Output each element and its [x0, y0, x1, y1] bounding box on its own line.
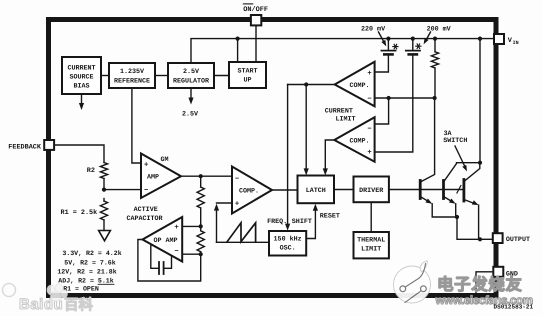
svg-text:GM: GM	[160, 156, 168, 164]
svg-text:5V, R2 = 7.6k: 5V, R2 = 7.6k	[64, 260, 115, 267]
svg-text:RESET: RESET	[320, 213, 340, 221]
svg-text:百科: 百科	[64, 297, 93, 314]
svg-text:COMP.: COMP.	[239, 188, 259, 196]
svg-text:FREQ.: FREQ.	[267, 218, 287, 226]
svg-text:220 mV: 220 mV	[361, 26, 385, 34]
svg-text:−: −	[367, 96, 371, 104]
svg-text:FEEDBACK: FEEDBACK	[8, 143, 42, 151]
svg-text:CURRENT: CURRENT	[67, 65, 95, 73]
svg-text:−: −	[235, 176, 239, 184]
svg-text:ADJ, R2 = 5.1k: ADJ, R2 = 5.1k	[58, 277, 113, 284]
svg-text:150 kHz: 150 kHz	[274, 236, 302, 244]
svg-text:3.3V, R2 = 4.2k: 3.3V, R2 = 4.2k	[62, 250, 121, 257]
svg-text:12V, R2 = 21.8k: 12V, R2 = 21.8k	[57, 269, 116, 276]
svg-text:R1 = OPEN: R1 = OPEN	[63, 286, 99, 293]
svg-text:REFERENCE: REFERENCE	[114, 78, 150, 86]
svg-text:CURRENT: CURRENT	[325, 107, 353, 115]
svg-text:LATCH: LATCH	[306, 187, 326, 195]
svg-text:200 mV: 200 mV	[427, 26, 451, 34]
svg-text:UP: UP	[243, 77, 251, 85]
svg-text:REGULATOR: REGULATOR	[173, 78, 209, 86]
svg-text:+: +	[367, 70, 371, 78]
svg-text:LIMIT: LIMIT	[361, 246, 381, 254]
svg-text:SWITCH: SWITCH	[443, 137, 467, 145]
svg-text:1.235V: 1.235V	[120, 68, 144, 76]
svg-text:+: +	[367, 149, 371, 157]
svg-text:−: −	[144, 187, 148, 195]
svg-text:SHIFT: SHIFT	[292, 218, 312, 226]
svg-text:+: +	[144, 161, 148, 169]
svg-text:COMP.: COMP.	[349, 137, 369, 145]
svg-text:R2: R2	[87, 167, 95, 175]
svg-text:OUTPUT: OUTPUT	[506, 236, 530, 244]
svg-text:−: −	[174, 248, 178, 256]
svg-text:START: START	[237, 68, 257, 76]
svg-text:COMP.: COMP.	[349, 82, 369, 90]
svg-text:R1 = 2.5k: R1 = 2.5k	[61, 209, 98, 217]
svg-text:−: −	[367, 126, 371, 134]
svg-text:SOURCE: SOURCE	[69, 74, 93, 82]
svg-text:OP AMP: OP AMP	[153, 237, 177, 245]
svg-text:LIMIT: LIMIT	[335, 116, 355, 124]
svg-text:2.5V: 2.5V	[182, 111, 198, 119]
svg-text:AMP: AMP	[147, 174, 159, 182]
svg-text:+: +	[235, 200, 239, 208]
svg-text:OSC.: OSC.	[280, 245, 296, 253]
svg-text:ACTIVE: ACTIVE	[134, 206, 158, 214]
svg-text:BIAS: BIAS	[73, 83, 89, 91]
svg-text:CAPACITOR: CAPACITOR	[126, 215, 162, 223]
svg-text:IN: IN	[513, 40, 519, 46]
svg-text:THERMAL: THERMAL	[357, 237, 385, 245]
svg-text:ON/OFF: ON/OFF	[243, 6, 268, 14]
svg-text:电子发烧友: 电子发烧友	[437, 275, 523, 294]
svg-text:www.elecfans.com: www.elecfans.com	[435, 293, 533, 307]
svg-text:DRIVER: DRIVER	[359, 187, 383, 195]
svg-text:2.5V: 2.5V	[183, 68, 199, 76]
svg-text:+: +	[174, 224, 178, 232]
